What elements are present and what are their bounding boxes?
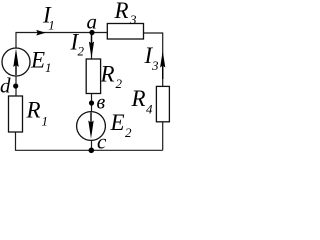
- svg-text:2: 2: [125, 125, 132, 140]
- svg-text:в: в: [97, 92, 106, 114]
- current arrow I1 (right): [36, 30, 46, 36]
- svg-text:1: 1: [45, 60, 52, 75]
- resistor R1: [9, 96, 23, 132]
- svg-text:1: 1: [48, 18, 55, 33]
- svg-text:3: 3: [129, 12, 137, 27]
- svg-text:a: a: [87, 10, 98, 34]
- svg-text:R: R: [114, 0, 129, 23]
- wire top-left horizontal (corner to node a to R3): [16, 33, 107, 49]
- svg-text:E: E: [30, 48, 45, 73]
- node c junction dot: [89, 148, 95, 154]
- current arrow I3 (up): [160, 51, 165, 68]
- svg-text:2: 2: [78, 44, 85, 59]
- svg-text:d: d: [0, 74, 11, 98]
- wire middle vertical (node a to R2 top): [91, 33, 93, 60]
- svg-text:4: 4: [146, 102, 153, 117]
- wire R3 right to right vertical down to R4: [144, 33, 163, 86]
- svg-text:R: R: [131, 86, 146, 111]
- EMF source E2 circle: [77, 112, 106, 141]
- E1 arrow (up): [13, 49, 18, 68]
- svg-text:E: E: [110, 110, 125, 135]
- svg-text:2: 2: [116, 76, 123, 91]
- wire middle vertical (E2 bottom to bottom wire): [91, 141, 93, 151]
- EMF source E1 circle: [2, 48, 30, 76]
- svg-text:1: 1: [42, 114, 49, 129]
- current arrow I2 (down): [89, 42, 94, 59]
- wire middle vertical (R2 bottom to E2 top): [91, 94, 93, 113]
- wire right vertical (R4 bottom to bottom-right corner): [162, 122, 164, 151]
- resistor R3: [107, 24, 143, 40]
- svg-text:3: 3: [151, 58, 159, 73]
- node в junction dot: [89, 100, 94, 105]
- resistor R4: [156, 86, 169, 121]
- node d junction dot: [13, 83, 18, 88]
- svg-text:c: c: [97, 130, 107, 154]
- node a junction dot: [89, 30, 94, 35]
- wire left vertical (R1 bottom to bottom-left corner): [16, 132, 163, 150]
- E2 arrow (down): [88, 121, 93, 139]
- wire left vertical (E1 bottom to R1 top): [15, 76, 17, 96]
- svg-text:R: R: [100, 62, 115, 87]
- svg-text:R: R: [26, 98, 41, 123]
- resistor R2: [86, 59, 100, 94]
